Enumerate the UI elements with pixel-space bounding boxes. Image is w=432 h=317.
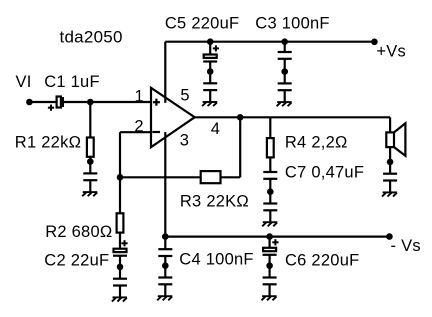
wire: output down to R4 — [269, 117, 271, 138]
node: rail junction to C5 — [207, 38, 214, 45]
resistor R4 — [267, 138, 274, 157]
ground — [157, 262, 172, 300]
ground — [262, 262, 277, 300]
ground — [382, 159, 397, 197]
wire: feedback up to output node — [239, 117, 241, 177]
svg-text:C6 220uF: C6 220uF — [285, 251, 359, 269]
wire: R4 to C7 — [269, 157, 271, 172]
resistor R2 — [117, 213, 124, 232]
wire: VI input to C1 — [29, 101, 56, 103]
wire: rail down to C6 — [269, 237, 271, 248]
capacitor C5 (electrolytic, + marker) — [203, 45, 219, 61]
svg-text:tda2050: tda2050 — [60, 28, 123, 47]
wire: down to feedback node — [119, 132, 121, 177]
svg-text:C7 0,47uF: C7 0,47uF — [285, 163, 364, 181]
capacitor C2 (electrolytic, + marker) — [113, 240, 128, 256]
wire: speaker to ground — [389, 147, 391, 162]
speaker LS1 — [386, 123, 405, 156]
wire: -Vs bottom rail — [165, 236, 389, 238]
svg-text:1: 1 — [135, 88, 144, 106]
wire: rail down to C3 — [284, 42, 286, 52]
svg-text:C2 22uF: C2 22uF — [44, 252, 109, 270]
wire: rail down to C4 — [164, 237, 166, 250]
capacitor C1 (electrolytic, + marker) — [48, 97, 63, 111]
wire: R3 to output — [221, 176, 241, 178]
svg-text:+Vs: +Vs — [376, 42, 406, 60]
svg-text:VI: VI — [16, 73, 32, 91]
svg-text:R2 680Ω: R2 680Ω — [45, 223, 112, 241]
svg-text:R4 2,2Ω: R4 2,2Ω — [285, 134, 348, 152]
svg-text:C3 100nF: C3 100nF — [255, 15, 329, 33]
wire: pin 3 down to -Vs rail — [164, 132, 166, 237]
node: rail junction to C3 — [281, 38, 288, 45]
node: junction C1 / R1 — [87, 99, 94, 106]
wire: C3 to ground — [284, 59, 286, 72]
wire: feedback node down to R2 — [119, 177, 121, 213]
ground — [262, 188, 277, 226]
node: +Vs terminal — [371, 39, 378, 46]
wire: feedback node to R3 — [120, 176, 201, 178]
node: -Vs terminal — [386, 233, 393, 240]
node: VI input terminal — [26, 99, 33, 106]
wire: op-amp output to speaker — [195, 116, 390, 118]
resistor R1 — [87, 138, 94, 157]
wire: C5 to ground — [209, 62, 211, 72]
svg-text:R3 22KΩ: R3 22KΩ — [180, 193, 249, 211]
capacitor C3 — [278, 52, 292, 59]
svg-text:C4 100nF: C4 100nF — [179, 251, 253, 269]
wire: C1 to op-amp pin 1 — [64, 101, 151, 103]
capacitor C4 — [158, 249, 172, 256]
op-amp U1 (TDA2050 triangle) — [151, 88, 195, 147]
ground — [112, 264, 127, 302]
ground — [82, 158, 97, 196]
wire: C4 to ground — [164, 256, 166, 266]
wire: +Vs top rail — [165, 41, 374, 43]
ground — [277, 68, 292, 106]
capacitor C7 — [263, 172, 277, 179]
svg-text:C1 1uF: C1 1uF — [44, 73, 100, 91]
svg-text:5: 5 — [180, 86, 189, 104]
ground — [202, 68, 217, 106]
svg-text:C5 220uF: C5 220uF — [165, 15, 239, 33]
wire: pin 2 to feedback node — [120, 131, 151, 133]
wire: C2 to ground — [119, 256, 121, 267]
wire: pin 5 to +Vs rail — [164, 42, 166, 103]
wire: C7 to ground — [269, 179, 271, 192]
op-amp non-inverting input + mark — [153, 99, 160, 106]
node: feedback junction — [117, 174, 124, 181]
wire: R2 to C2 — [119, 233, 121, 249]
wire: R1 to ground — [89, 157, 91, 162]
node: rail junction to C6 — [266, 233, 273, 240]
resistor R3 (horizontal) — [201, 171, 221, 183]
node: rail junction to C4 — [162, 233, 169, 240]
op-amp inverting input - mark — [152, 131, 160, 133]
capacitor C6 (electrolytic, + marker) — [263, 239, 279, 255]
wire: C6 to ground — [269, 255, 271, 266]
wire: rail down to C5 — [209, 42, 211, 55]
svg-text:4: 4 — [211, 120, 220, 138]
svg-text:3: 3 — [180, 131, 189, 149]
wire: output down to speaker — [389, 117, 391, 132]
svg-text:R1 22kΩ: R1 22kΩ — [15, 134, 81, 152]
wire: junction down to R1 — [89, 102, 91, 138]
node: output junction — [237, 114, 244, 121]
svg-text:- Vs: - Vs — [391, 237, 421, 255]
